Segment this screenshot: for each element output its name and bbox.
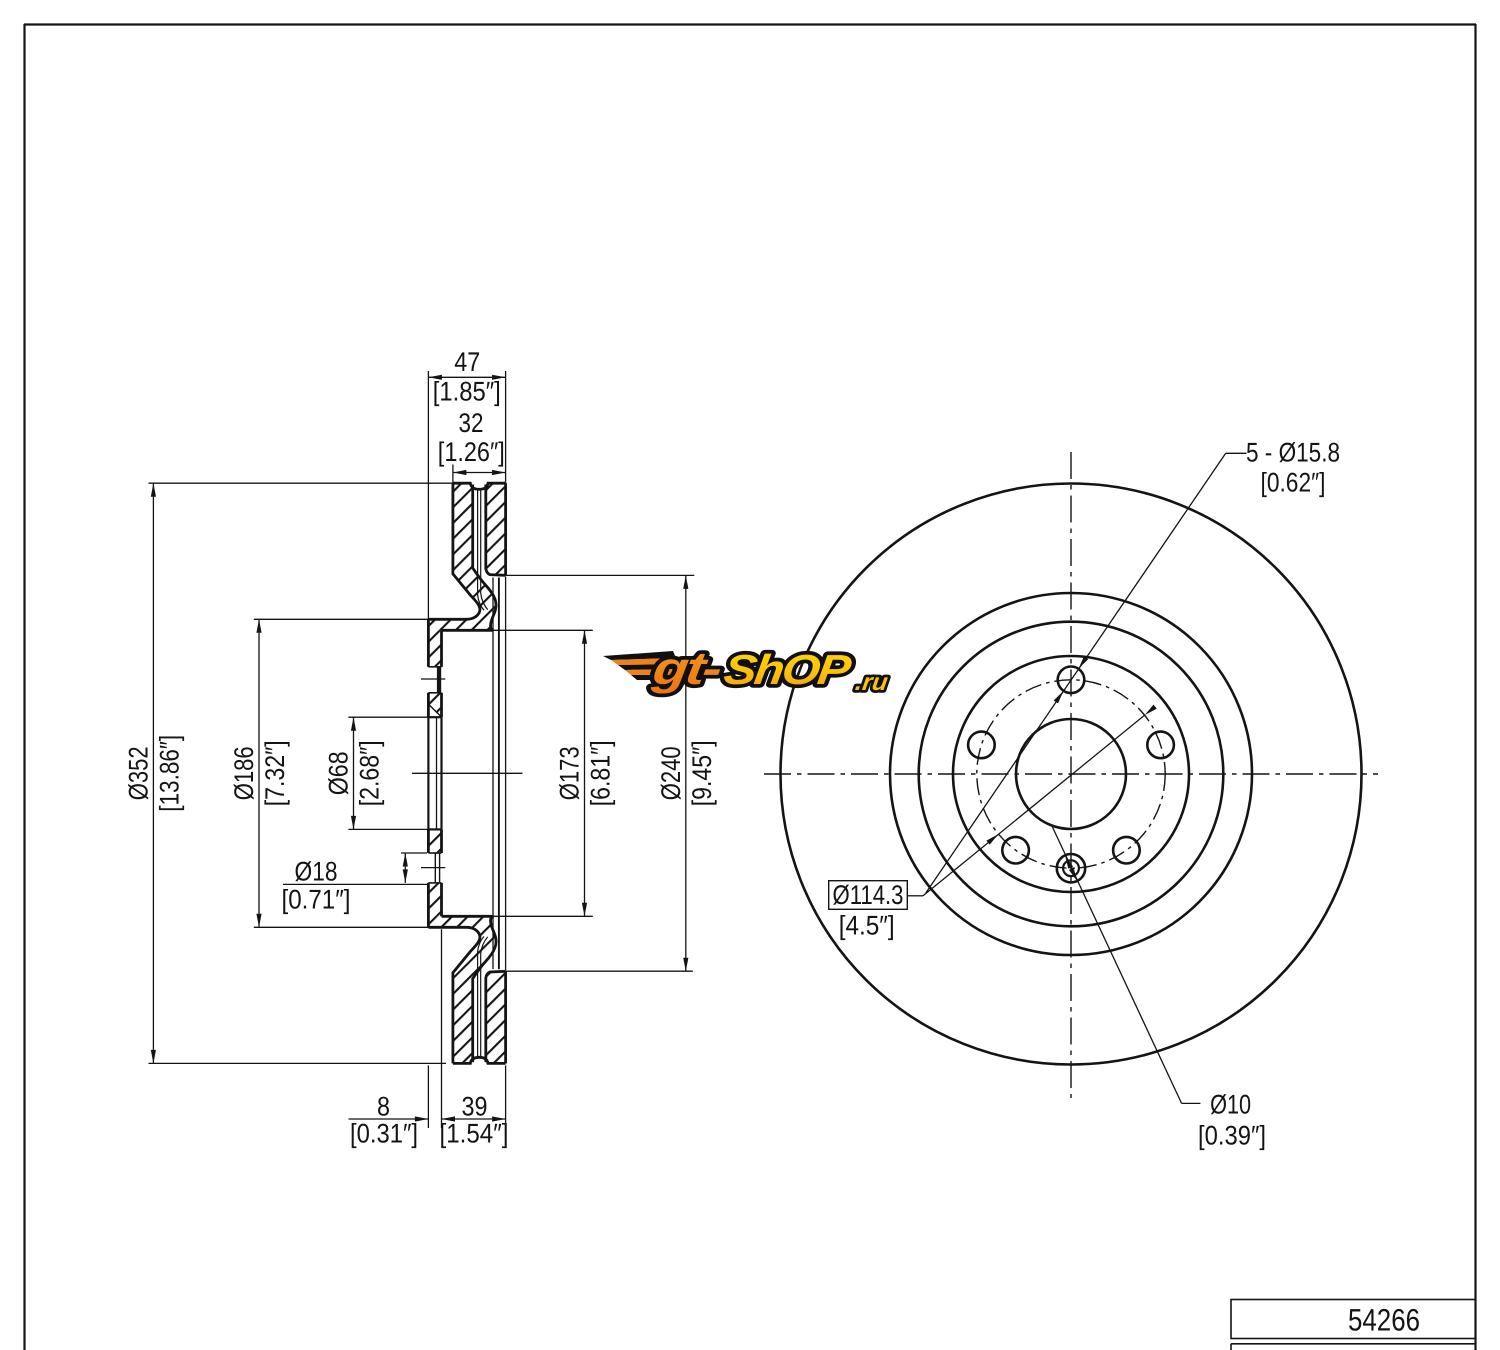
svg-text:Ø68: Ø68	[324, 751, 354, 795]
svg-text:Ø10: Ø10	[1210, 1089, 1251, 1119]
svg-text:ShOP: ShOP	[721, 646, 855, 693]
dimension 39 hat depth	[505, 1065, 507, 1135]
svg-text:[1.26″]: [1.26″]	[438, 437, 505, 467]
set-screw hole in flange (section, bottom, Ø18)	[428, 852, 441, 854]
svg-text:Ø114.3: Ø114.3	[833, 880, 904, 910]
svg-text:Ø186: Ø186	[229, 746, 259, 800]
svg-text:Ø352: Ø352	[124, 746, 154, 800]
svg-text:.ru: .ru	[854, 669, 890, 696]
svg-text:[13.86″]: [13.86″]	[154, 735, 184, 812]
vertical centreline	[1070, 452, 1072, 1098]
svg-text:[4.5″]: [4.5″]	[839, 911, 895, 941]
svg-text:Ø240: Ø240	[656, 746, 686, 800]
svg-text:[1.85″]: [1.85″]	[433, 377, 501, 407]
svg-text:54266: 54266	[1348, 1303, 1420, 1338]
svg-text:[0.31″]: [0.31″]	[350, 1119, 418, 1149]
svg-text:8: 8	[377, 1092, 390, 1122]
svg-text:5 - Ø15.8: 5 - Ø15.8	[1246, 437, 1340, 467]
hatched cut material: upper friction plates and hat neck	[428, 483, 496, 630]
hatched cut material: lower friction plates and hat neck (mirror)	[428, 916, 496, 1063]
outer diameter circle Ø352	[781, 484, 1362, 1065]
leader: Ø10 set-screw hole	[1052, 826, 1182, 1104]
set-screw hole Ø10 with chamfer	[1057, 854, 1085, 882]
svg-text:Ø18: Ø18	[295, 857, 338, 887]
svg-text:gt-: gt-	[649, 642, 724, 694]
leader: 5 - Ø15.8 bolt holes	[1226, 452, 1247, 454]
hat step circle	[953, 656, 1189, 892]
bore silhouette edges seen through centre hole	[427, 717, 429, 829]
horizontal centreline	[764, 773, 1378, 775]
svg-text:[1.54″]: [1.54″]	[440, 1119, 509, 1149]
svg-text:[0.62″]: [0.62″]	[1261, 467, 1326, 497]
bolt circle Ø114.3 (dash-dot)	[977, 680, 1165, 868]
svg-text:[2.68″]: [2.68″]	[355, 740, 385, 806]
dimension Ø240 vent lip diameter	[506, 574, 695, 576]
leader + box: Ø114.3 bolt circle	[829, 881, 908, 910]
svg-text:32: 32	[459, 408, 484, 438]
hat flange circle Ø186	[919, 622, 1224, 927]
five wheel bolt holes Ø15.8	[1058, 667, 1085, 694]
vent vane edges in rotor slot	[478, 490, 484, 611]
dimension Ø18 set-screw hole	[401, 852, 427, 854]
dimension 8 flange offset	[427, 1065, 429, 1128]
svg-text:Ø173: Ø173	[555, 746, 585, 800]
svg-text:[6.81″]: [6.81″]	[586, 740, 616, 806]
svg-text:47: 47	[454, 347, 480, 377]
svg-text:[7.32″]: [7.32″]	[260, 740, 290, 806]
svg-text:[9.45″]: [9.45″]	[687, 740, 717, 806]
dimension Ø186 hat flange diameter	[254, 618, 429, 620]
bolt hole in flange (section, top)	[428, 666, 441, 668]
dimension Ø68 centre bore	[348, 716, 428, 718]
section horizontal centreline	[412, 772, 523, 774]
svg-text:[0.71″]: [0.71″]	[282, 885, 351, 915]
rotor outline lower half	[453, 1057, 506, 1063]
dimension Ø173 hat bowl diameter	[491, 629, 592, 631]
centre bore edges (Ø68)	[428, 716, 441, 718]
hat flange faces	[427, 619, 430, 667]
dimension Ø352 overall diameter	[149, 482, 453, 484]
svg-text:39: 39	[462, 1092, 488, 1122]
centre bore circle Ø68	[1016, 719, 1126, 829]
drawing sheet frame	[23, 24, 25, 1350]
svg-text:[0.39″]: [0.39″]	[1198, 1120, 1266, 1150]
title block	[1231, 1300, 1476, 1339]
dimension 47 overall thickness	[427, 371, 429, 619]
friction surface inner circle	[890, 593, 1252, 955]
rotor outline upper half	[453, 483, 506, 489]
visible interior edges seen through hat bowl	[492, 578, 494, 970]
hatched hat mounting flange strips	[428, 630, 441, 667]
